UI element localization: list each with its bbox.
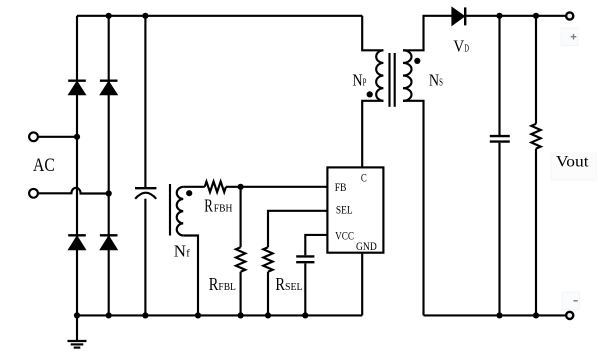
svg-text:R: R (275, 274, 285, 294)
node dots top rail secondary (496, 13, 502, 19)
wire AC bottom lead with hop over column1 (39, 188, 109, 194)
svg-text:S: S (439, 78, 443, 89)
wire filter cap branch lower (144, 199, 146, 316)
diode D1 bridge top-left (68, 81, 86, 95)
output terminal - (566, 312, 573, 319)
capacitor filter curved plate (135, 193, 156, 199)
diode D3 bridge bottom-left (68, 235, 86, 250)
capacitor output (490, 136, 510, 142)
wire filter cap branch upper (144, 16, 146, 187)
node phase dot Np (367, 91, 373, 97)
node dots bottom rail secondary (496, 312, 502, 318)
node FB junction (238, 184, 244, 190)
resistor RFBH (205, 182, 226, 193)
wire bridge column 2 (108, 16, 110, 316)
wire load branch lower (535, 149, 537, 316)
svg-text:FBL: FBL (218, 282, 236, 293)
svg-text:AC: AC (33, 155, 55, 176)
wire load branch upper (535, 16, 537, 124)
faint box behind + (561, 28, 578, 46)
wire bottom rail secondary (424, 314, 566, 316)
wire top rail secondary (465, 15, 566, 17)
label + (571, 34, 577, 40)
wire SEL branch (268, 211, 327, 248)
wire bridge column 1 (76, 16, 78, 316)
svg-text:Vout: Vout (556, 153, 589, 170)
diode D2 bridge top-right (100, 81, 118, 95)
wire output cap branch lower (498, 143, 500, 316)
wire primary bottom lead to IC pin C (362, 101, 383, 168)
svg-text:f: f (186, 249, 190, 260)
op-amp U1 controller IC box (327, 167, 383, 252)
resistor RFBL (236, 187, 245, 316)
output terminal + (566, 12, 573, 19)
svg-text:R: R (209, 274, 219, 294)
node phase dot Nf (186, 190, 192, 196)
svg-text:N: N (174, 241, 186, 260)
svg-text:SEL: SEL (336, 205, 353, 217)
wire Nf top lead to RFBH (183, 186, 205, 188)
faint box behind Vout (551, 153, 596, 180)
wire secondary bottom lead (403, 101, 424, 316)
wire GND pin to bottom rail (361, 253, 363, 316)
node junction AC bottom / column2 (106, 190, 112, 196)
wire primary top lead (362, 16, 383, 51)
svg-text:P: P (363, 78, 367, 89)
wire top rail primary (77, 15, 362, 17)
resistor load (Vout) (531, 124, 540, 149)
svg-text:D: D (464, 43, 469, 54)
AC terminal top (29, 132, 38, 141)
AC terminal bottom (29, 189, 38, 198)
svg-text:N: N (352, 70, 362, 89)
node phase dot Ns (414, 58, 420, 64)
winding Nf core line (169, 184, 171, 236)
svg-text:FB: FB (335, 182, 347, 194)
node dots on bottom rail (74, 312, 80, 318)
wire bottom rail primary (77, 314, 362, 316)
diode D4 bridge bottom-right (100, 235, 118, 250)
winding Nf coil (177, 187, 183, 236)
svg-text:V: V (453, 36, 464, 55)
svg-text:SEL: SEL (285, 282, 303, 293)
svg-text:FBH: FBH (214, 204, 233, 215)
svg-text:GND: GND (356, 241, 377, 253)
wire Nf bottom lead (183, 236, 198, 316)
label - (574, 300, 578, 302)
winding Np primary coil (376, 50, 383, 101)
svg-text:N: N (429, 70, 439, 89)
transformer core (390, 53, 395, 107)
node dots on top rail (106, 13, 112, 19)
ground (68, 315, 87, 347)
wire secondary top lead (403, 16, 452, 51)
wire VCC branch (305, 235, 327, 255)
resistor RSEL (263, 247, 272, 315)
faint box behind minus (562, 292, 580, 310)
node junction AC top / column1 (74, 134, 80, 140)
wire AC top lead (39, 136, 77, 138)
svg-text:VCC: VCC (335, 230, 354, 242)
wire FB node to IC (226, 186, 327, 188)
winding Ns secondary coil (403, 50, 412, 101)
svg-text:R: R (204, 196, 213, 216)
capacitor filter (bulk) plate (135, 187, 156, 189)
svg-text:C: C (361, 173, 367, 185)
wire output cap branch upper (498, 16, 500, 135)
capacitor VCC bypass (296, 256, 314, 315)
diode VD (452, 7, 465, 25)
